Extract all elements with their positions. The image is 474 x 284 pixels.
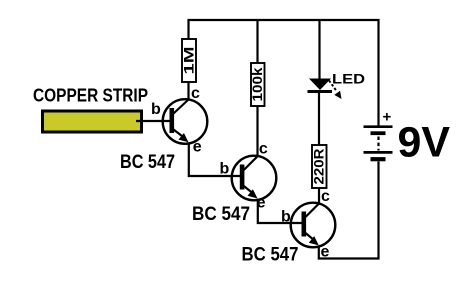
svg-text:BC 547: BC 547 <box>192 204 250 225</box>
svg-text:c: c <box>321 188 330 205</box>
svg-text:BC 547: BC 547 <box>242 244 299 265</box>
svg-text:c: c <box>259 140 268 157</box>
svg-text:e: e <box>193 139 202 156</box>
svg-text:BC 547: BC 547 <box>120 152 175 173</box>
svg-text:+: + <box>383 109 392 126</box>
svg-text:LED: LED <box>332 71 365 87</box>
svg-text:9V: 9V <box>398 119 451 167</box>
svg-text:1M: 1M <box>182 47 197 75</box>
svg-text:c: c <box>191 85 200 102</box>
svg-text:COPPER STRIP: COPPER STRIP <box>33 85 148 105</box>
svg-text:b: b <box>151 101 161 118</box>
svg-text:b: b <box>220 160 230 177</box>
svg-text:b: b <box>281 208 291 225</box>
svg-text:100k: 100k <box>250 67 265 102</box>
svg-text:220R: 220R <box>312 148 327 184</box>
